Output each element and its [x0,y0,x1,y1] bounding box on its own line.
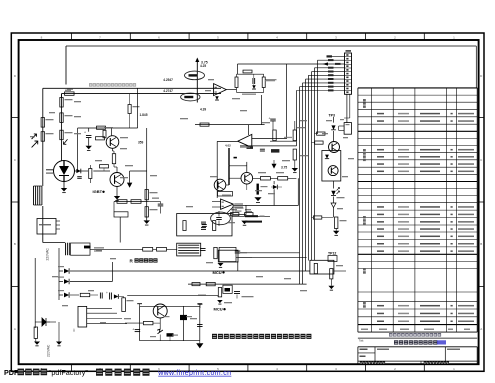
svg-text:A: A [480,327,482,331]
svg-text:+: + [106,291,108,295]
svg-text:PDF: PDF [4,368,19,377]
svg-text:4.02: 4.02 [225,144,231,148]
svg-text:www.fineprint.com.cn: www.fineprint.com.cn [157,370,231,377]
svg-text:1.845: 1.845 [140,113,148,117]
svg-text:4.25: 4.25 [200,64,206,68]
svg-text:4.2747: 4.2747 [163,89,173,93]
svg-text:“pdfFactory”: “pdfFactory” [49,368,88,377]
svg-text:A: A [14,327,16,331]
svg-text:3.75: 3.75 [281,166,287,170]
svg-text:220VAC: 220VAC [46,248,50,261]
svg-text:4.39: 4.39 [200,108,206,112]
svg-text:TP12: TP12 [328,252,336,256]
svg-text:TP3: TP3 [329,113,335,117]
svg-text:+ +: + + [249,69,253,72]
svg-text:+: + [269,117,271,121]
svg-text:+: + [84,131,86,135]
svg-text:4.2547: 4.2547 [163,78,173,82]
svg-text:MCU: MCU [214,307,223,312]
svg-text:IGBT: IGBT [93,189,103,194]
svg-text:B: B [14,242,16,246]
svg-text:Tab.: Tab. [359,339,365,343]
svg-text:220VAC: 220VAC [46,344,50,357]
svg-text:+: + [132,328,134,332]
svg-text:359: 359 [138,141,144,145]
svg-text:B: B [480,242,482,246]
svg-text:MCU: MCU [213,270,222,275]
